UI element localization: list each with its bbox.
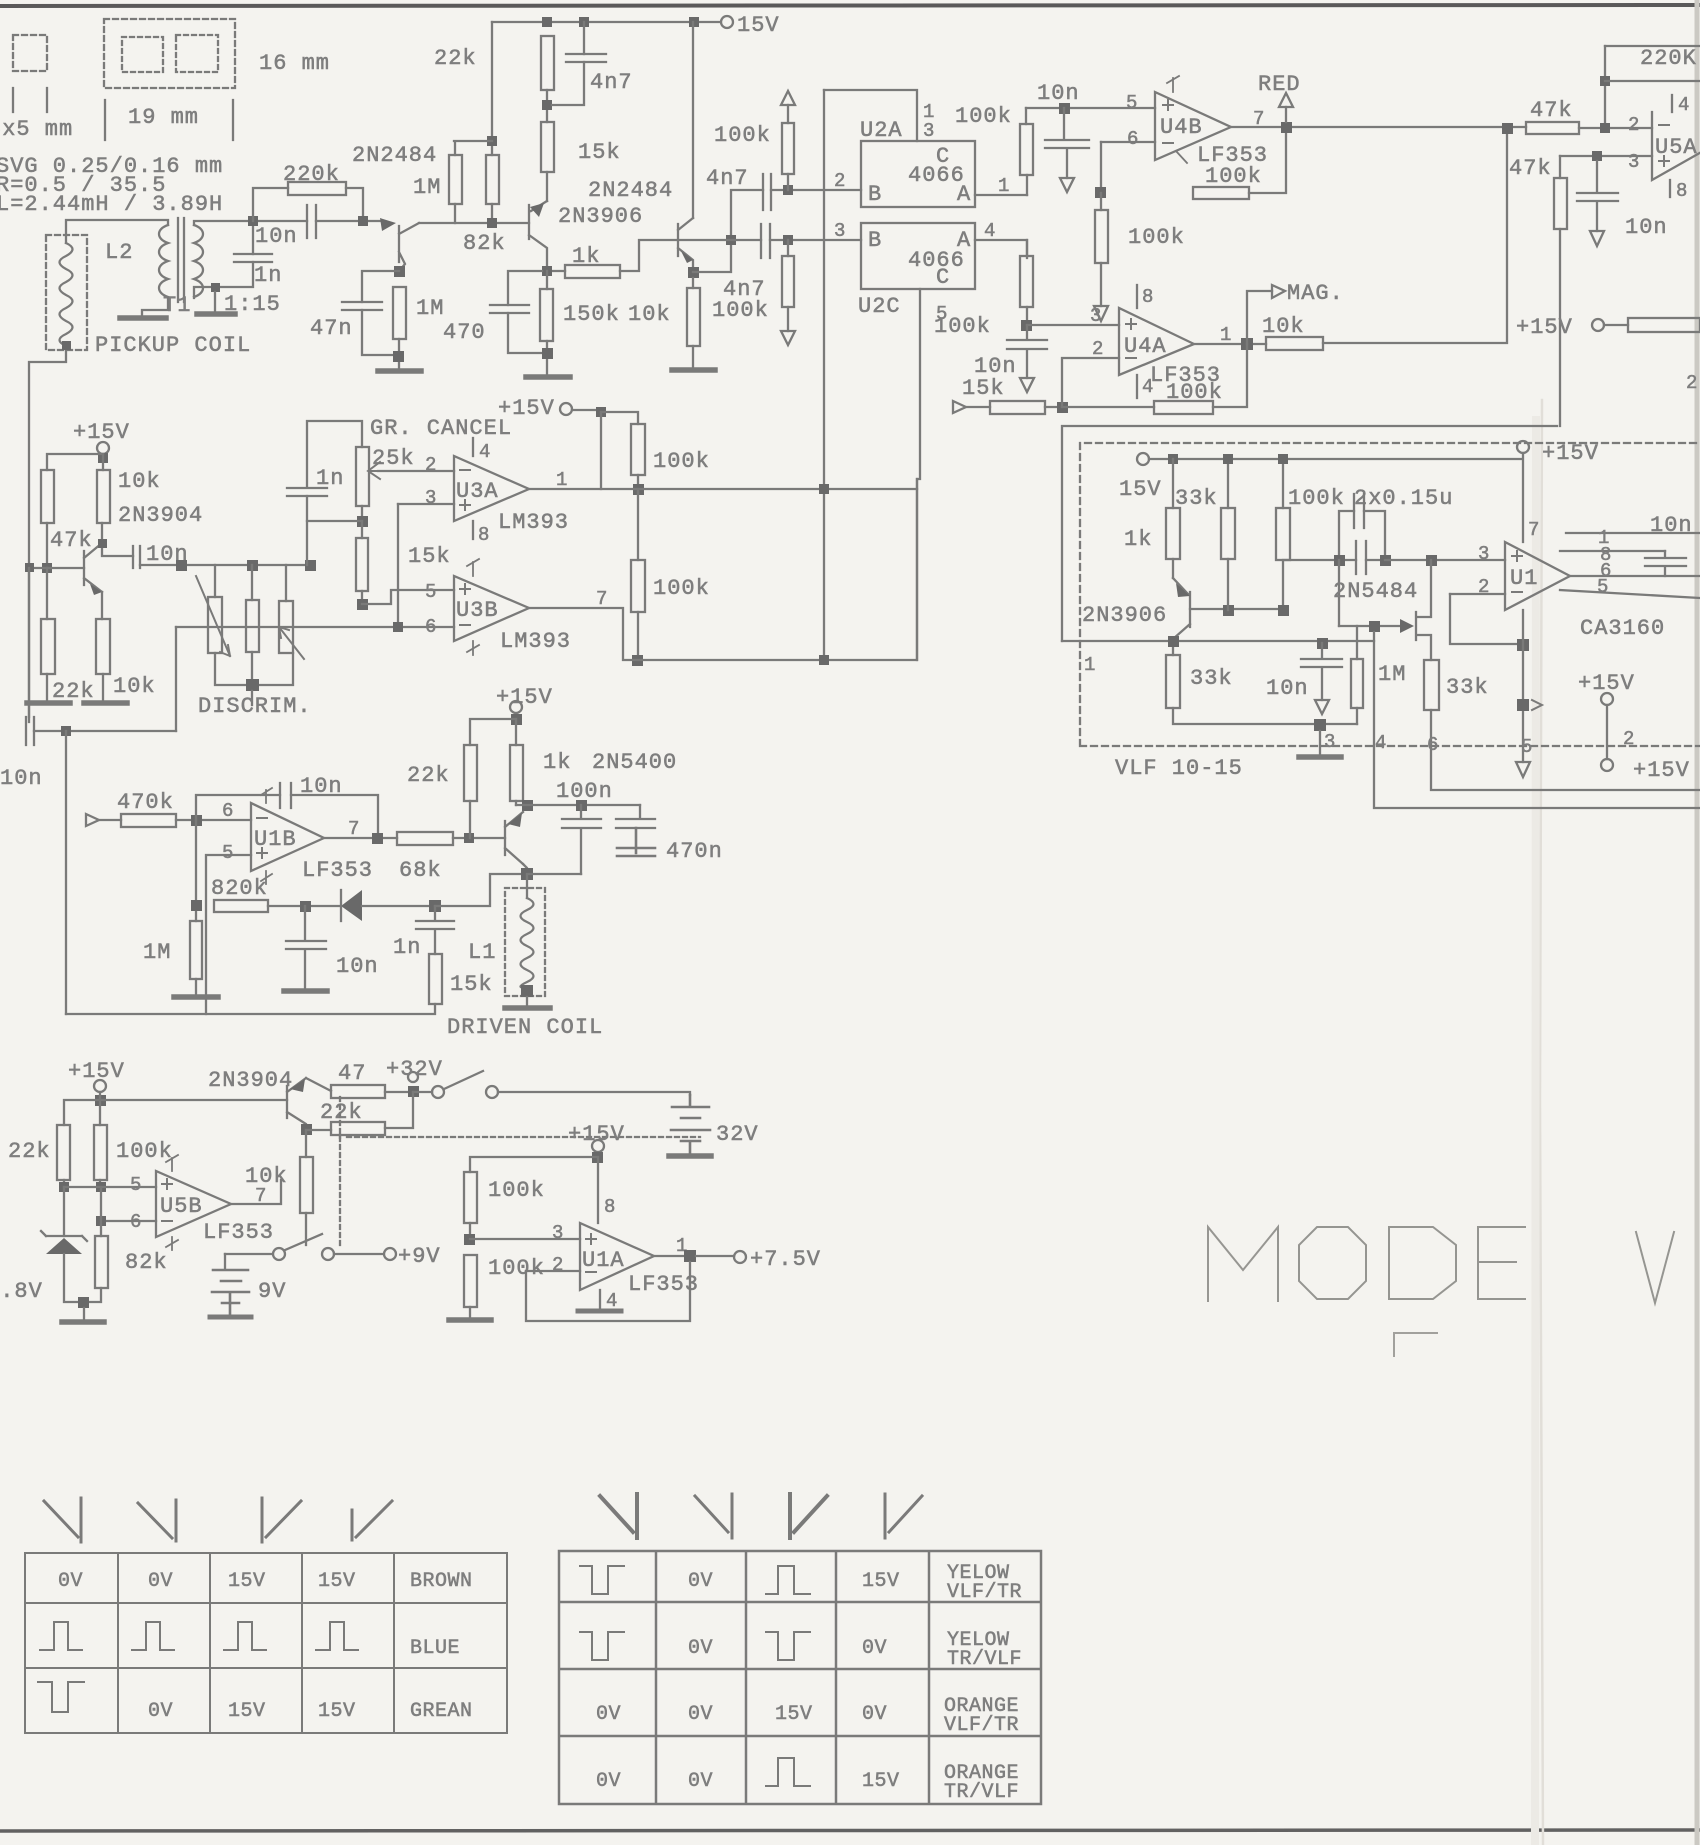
pulse up L r2c1 [40, 1622, 82, 1650]
wire T1 top to Q1 node row [194, 221, 307, 225]
wire Q7 collector down [1172, 639, 1174, 655]
junction +32V node [408, 1086, 419, 1097]
svg-text:10n: 10n [0, 766, 43, 791]
resistor 100k pullup vertical [782, 123, 794, 174]
wire +15V reg to Q6 [100, 1099, 287, 1101]
svg-text:7: 7 [1253, 108, 1264, 130]
wire gate pin4 drop [1374, 632, 1700, 808]
arrow input left [953, 401, 966, 413]
svg-text:3: 3 [834, 220, 845, 242]
U4B minus sign [1163, 142, 1173, 144]
svg-text:+15V: +15V [1516, 315, 1573, 340]
U1B plus sign [257, 848, 267, 858]
inductor L2 winding [60, 243, 73, 346]
junction upper 100k node [783, 185, 793, 195]
junction U3B out node [632, 655, 643, 666]
svg-text:U1B: U1B [254, 827, 297, 852]
junction U1A out [684, 1250, 696, 1262]
wire Q4 collector node to cap [102, 543, 133, 556]
svg-text:47k: 47k [1530, 98, 1573, 123]
junction feedback node U4B [1095, 187, 1106, 198]
svg-text:+32V: +32V [386, 1057, 443, 1082]
resistor 82k vertical [95, 1236, 108, 1288]
wire Q7 base row [1190, 608, 1283, 610]
junction discrim row a [176, 560, 187, 571]
svg-text:15V: 15V [318, 1700, 356, 1723]
circle +15V U1A [592, 1140, 604, 1152]
junction pin6 tie [393, 622, 403, 632]
svg-text:4n7: 4n7 [590, 70, 633, 95]
junction +15V U1A [592, 1152, 603, 1163]
svg-text:5: 5 [130, 1174, 141, 1196]
svg-text:U5A: U5A [1655, 135, 1698, 160]
arrow glyph L3 [262, 1498, 301, 1542]
svg-text:U1: U1 [1510, 566, 1538, 591]
svg-text:VLF/TR: VLF/TR [944, 1714, 1019, 1737]
wire 100k pullB bottom [637, 612, 639, 660]
svg-text:C: C [936, 265, 950, 290]
Q3 emitter arrow [681, 251, 693, 263]
junction U4A pin3 node [1021, 320, 1032, 331]
svg-text:+9V: +9V [398, 1244, 441, 1269]
pot right wiper arrow [279, 627, 304, 659]
pulse down R r1c1 dots [607, 1566, 609, 1592]
svg-text:2: 2 [834, 170, 845, 192]
junction Q3 emitter node [688, 267, 699, 278]
svg-text:2N2484: 2N2484 [588, 178, 673, 203]
wire +15V comp to 100k pullA [601, 412, 638, 424]
svg-text:1M: 1M [416, 296, 444, 321]
capacitor 1n drv plates [416, 906, 454, 954]
wire 22k collector feed vertical [491, 22, 493, 223]
resistor 10k vertical [687, 288, 700, 346]
wire Q5 collector to row [523, 864, 527, 875]
pot discrim left [208, 597, 222, 653]
wire 100k gnd top leg [1100, 193, 1102, 210]
wire 33k lower bottom to row3 [1173, 708, 1357, 724]
pulse up R r1c3 dots [793, 1568, 795, 1594]
junction zener gnd node [78, 1297, 89, 1308]
junction +15V reg [95, 1095, 106, 1106]
svg-text:15k: 15k [578, 140, 621, 165]
resistor 22k reg vertical [57, 1125, 70, 1180]
circle +32V terminal [408, 1072, 418, 1082]
resistor 100k divA vertical [464, 1172, 477, 1223]
wire mid row [307, 520, 362, 522]
wire 22k bias bottom [46, 674, 48, 700]
zener bar [41, 1231, 87, 1241]
pot 25k vertical [356, 447, 369, 506]
wire 4n7 top leg [583, 22, 585, 54]
junction 10n node pin5 [1059, 103, 1070, 114]
wire 9V switch to +9V [334, 1253, 383, 1255]
junction 1M/82k feed [487, 136, 497, 146]
wire U1 outputs right d [1560, 590, 1700, 598]
wire 0.15u bridge right [1364, 511, 1385, 560]
wire Q6 collector to 22k [306, 1092, 413, 1130]
svg-text:2N5400: 2N5400 [592, 750, 677, 775]
svg-text:0V: 0V [688, 1770, 713, 1793]
wire 15k to pin2 node [1045, 406, 1062, 408]
wire U1A pin4 stub [599, 1290, 601, 1310]
svg-text:0V: 0V [596, 1703, 621, 1726]
wire +15V U1A row to 100k [470, 1157, 598, 1172]
junction T1 bottom node [211, 283, 220, 292]
svg-text:150k: 150k [563, 302, 620, 327]
capacitor 470n lower plate [617, 828, 655, 856]
junction L2 column base [25, 563, 34, 572]
junction cap row left [1334, 555, 1345, 566]
wire 47 to +32V node [385, 1091, 413, 1093]
svg-text:DRIVEN COIL: DRIVEN COIL [447, 1015, 603, 1040]
wire 150k bottom to ground [546, 341, 548, 375]
junction 15V row c [1278, 454, 1288, 464]
svg-text:3: 3 [425, 487, 436, 509]
capacitor 10n VLF plates [1301, 643, 1342, 700]
Q5 emitter arrow [508, 813, 522, 827]
wire 100k-82k column [100, 1187, 102, 1236]
svg-text:5.8V: 5.8V [0, 1279, 43, 1304]
svg-text:L2: L2 [105, 240, 133, 265]
wire L2 bottom down-left [29, 346, 66, 717]
svg-text:VLF/TR: VLF/TR [947, 1581, 1022, 1604]
svg-text:7: 7 [596, 588, 607, 610]
ground arrow down pulldown [781, 331, 795, 345]
page edge shadow right [1695, 0, 1700, 1845]
right table grid [559, 1551, 1041, 1804]
svg-text:+15V: +15V [498, 396, 555, 421]
resistor 10k out horizontal [1266, 337, 1323, 350]
resistor discrim mid [246, 600, 259, 652]
U5A pin4 stub [1671, 95, 1673, 112]
Q2 emitter arrow [530, 203, 544, 217]
svg-text:2N3904: 2N3904 [208, 1068, 293, 1093]
wire 100k pullup bottom [787, 174, 789, 190]
junction top rail a [542, 17, 552, 27]
transformer T1 core lines [178, 218, 184, 302]
svg-text:10n: 10n [1266, 676, 1309, 701]
wire 100k VLF top [1282, 459, 1284, 508]
resistor 1M emitter vertical [393, 287, 406, 339]
legend inner dashed square A [122, 37, 163, 72]
svg-text:2: 2 [552, 1254, 563, 1276]
svg-text:1k: 1k [543, 750, 571, 775]
wire divider mid [469, 1223, 471, 1239]
resistor at right edge [1628, 318, 1700, 332]
wire discrim bottoms common [215, 652, 293, 685]
circle +15V pair bottom [1601, 759, 1613, 771]
pulse down R r2c3 [766, 1632, 810, 1660]
wire 1k to Q3 base [620, 240, 678, 271]
circle +7.5V [734, 1251, 746, 1263]
svg-text:100k: 100k [1205, 164, 1262, 189]
svg-text:4: 4 [1375, 732, 1386, 754]
wire fb cap loop [196, 795, 378, 832]
svg-text:8: 8 [1676, 180, 1687, 202]
wire +15V reg to 22k [64, 1092, 100, 1125]
svg-text:10n: 10n [300, 774, 343, 799]
svg-text:2N3906: 2N3906 [1082, 603, 1167, 628]
wire lower cap to U2C pin3 [770, 239, 861, 241]
junction U4B out [1281, 122, 1292, 133]
arrow glyph L1 [44, 1498, 81, 1542]
wire U4B output [1231, 126, 1526, 128]
resistor 68k horizontal [397, 832, 453, 845]
wire 10n row to pin6 riser [34, 730, 176, 732]
circle +15V bias [97, 442, 109, 454]
junction 2N5400 base node [464, 833, 474, 843]
svg-text:15V: 15V [862, 1770, 900, 1793]
capacitor 10n U5A plates [1577, 161, 1618, 231]
pulse down L r3c1 [38, 1682, 84, 1712]
U4B top stub [1167, 76, 1179, 92]
wire diode to L1 node [362, 905, 435, 907]
circle +15V pair top [1601, 693, 1613, 705]
wire 10k out to U5A riser [1323, 128, 1507, 343]
wire 33k source bottom pin6 [1431, 710, 1700, 790]
wire base row to L2 column [29, 567, 47, 569]
wire 1M drv top [195, 912, 197, 921]
svg-text:3: 3 [1324, 731, 1335, 753]
svg-text:100n: 100n [556, 779, 613, 804]
junction 10n row [61, 726, 71, 736]
svg-text:+15V: +15V [496, 685, 553, 710]
wire 220k left leg [253, 188, 288, 221]
zener diode 5.8V [46, 1238, 82, 1254]
wire upper cap to U2A pin2 [771, 189, 861, 191]
U3B bottom stub [467, 641, 479, 655]
svg-text:RED: RED [1258, 72, 1301, 97]
circle +15V comparators [560, 403, 572, 415]
junction Q7 base 33k [1223, 605, 1234, 616]
svg-text:+15V: +15V [1542, 441, 1599, 466]
svg-text:U3B: U3B [456, 598, 499, 623]
wire +15V reg to 100k [99, 1100, 101, 1125]
wire discrim bottom stub [251, 691, 253, 705]
junction zener node [59, 1182, 69, 1192]
junction Q7 collector node [1168, 636, 1179, 647]
wire 33k upper bottom [1227, 559, 1229, 610]
svg-text:U4B: U4B [1160, 115, 1203, 140]
svg-text:0V: 0V [596, 1770, 621, 1793]
arrow glyph R1 [600, 1494, 637, 1538]
wire 22k bias top [46, 568, 48, 619]
svg-text:8: 8 [1142, 286, 1153, 308]
resistor 10k emitter vertical [96, 619, 110, 674]
battery 32V cells [671, 1095, 710, 1154]
U3A minus sign [460, 469, 470, 471]
svg-text:4: 4 [984, 220, 995, 242]
wire U4A pin3 row [1027, 324, 1119, 326]
svg-text:33k: 33k [1190, 666, 1233, 691]
resistor 100k U4A feedback [1154, 401, 1213, 414]
junction discrim row b [247, 560, 258, 571]
wire base row to Q4 [47, 567, 84, 569]
svg-text:0V: 0V [688, 1703, 713, 1726]
junction +15V bias [98, 453, 108, 463]
wire 10k bottom to ground [692, 346, 694, 368]
resistor 82k vertical [486, 155, 499, 204]
svg-text:TR/VLF: TR/VLF [944, 1781, 1019, 1804]
wire 10n to Q1 base node [316, 220, 381, 222]
junction 47k-220K node [1600, 123, 1610, 133]
capacitor 1n gr plates [287, 488, 327, 496]
svg-text:BROWN: BROWN [410, 1570, 473, 1593]
transformer T1 right winding [194, 225, 203, 297]
svg-text:VLF 10-15: VLF 10-15 [1115, 756, 1243, 781]
wire 15k gr bottom to U3B pin5 [361, 591, 363, 604]
wire 150k top leg [546, 271, 548, 289]
U3B minus sign [460, 624, 470, 626]
MODE letter V [1636, 1232, 1674, 1303]
arrow RED up [1279, 93, 1293, 107]
svg-text:LF353: LF353 [628, 1272, 699, 1297]
junction pin3 10n node [1592, 151, 1602, 161]
op-amp U4B [1155, 92, 1231, 160]
svg-text:1M: 1M [413, 175, 441, 200]
wire 100k VLF bottom to base row [1283, 560, 1339, 610]
junction lower 100k node [783, 235, 793, 245]
svg-text:TR/VLF: TR/VLF [947, 1648, 1022, 1671]
wire +15V to 10k [102, 454, 104, 470]
pulse down R r1c1 [580, 1566, 624, 1594]
svg-text:MAG.: MAG. [1287, 281, 1344, 306]
wire pot right top [285, 565, 287, 601]
svg-text:2: 2 [1478, 576, 1489, 598]
dashed gang link horizontal [340, 1135, 700, 1138]
pulse up L r2c3 [224, 1622, 266, 1650]
U3A pin8 stub [472, 521, 474, 539]
svg-text:10n: 10n [336, 954, 379, 979]
svg-text:100k: 100k [116, 1139, 173, 1164]
svg-text:2x0.15u: 2x0.15u [1354, 486, 1453, 511]
svg-text:6: 6 [1427, 734, 1438, 756]
svg-text:470k: 470k [117, 790, 174, 815]
junction 25k bottom [357, 516, 368, 527]
ground under row3 [1299, 754, 1341, 760]
junction U4A pin2 node [1057, 402, 1068, 413]
circle +15V mid right [1592, 319, 1604, 331]
wire U2C pin4 out [975, 240, 1027, 258]
junction 150k ground node [542, 348, 553, 359]
wire pot left top [214, 565, 216, 597]
ground under 10n det [284, 988, 327, 994]
svg-text:0V: 0V [58, 1570, 83, 1593]
transistor Q1 2N2484 [399, 223, 419, 270]
resistor 1M drv vertical [190, 921, 202, 979]
junction U1B pin6 node [191, 815, 202, 826]
wire U4B pin5 row [1026, 107, 1155, 109]
ground arrow 10n VLF [1315, 700, 1329, 714]
ground under 9V [210, 1315, 251, 1320]
junction cap row right [1380, 555, 1391, 566]
wire res mid top [251, 565, 253, 600]
wire feedback right leg [1249, 127, 1286, 193]
ground arrow 10n U4A [1020, 378, 1034, 392]
ground under zener [62, 1319, 104, 1325]
wire U1A output [654, 1255, 690, 1257]
svg-text:7: 7 [1528, 519, 1539, 541]
junction emitter row a [522, 800, 533, 811]
junction base-100k [1278, 605, 1289, 616]
wire fb node down to 820k [195, 820, 197, 906]
wire 1k VLF top [1172, 459, 1174, 508]
junction discrim row c [305, 560, 316, 571]
svg-text:10k: 10k [118, 469, 161, 494]
wire cap to discrim row [140, 564, 310, 566]
ground under 1M [378, 368, 421, 374]
wire U1 outputs right b [1570, 575, 1700, 577]
wire pin3 to pin6 tie [397, 504, 399, 627]
wire U3B pin5 row [362, 590, 454, 604]
junction 15V row b [1223, 454, 1233, 464]
wire T1 bottom stub to ground [214, 292, 216, 312]
wire 1M bottom to ground [398, 339, 400, 368]
capacitor 0.15u A plates [1354, 494, 1364, 528]
circle +15V reg [94, 1080, 106, 1092]
svg-text:100k: 100k [714, 123, 771, 148]
U1A minus sign [586, 1271, 596, 1273]
svg-text:1k: 1k [1124, 527, 1152, 552]
wire 68k to 2N5400 base [453, 837, 505, 839]
wire gate row [1339, 625, 1400, 627]
svg-text:4: 4 [479, 441, 490, 463]
wire +15V drv to 22k [470, 719, 516, 745]
ground under T1 left [120, 315, 166, 321]
wire L2 column down to 10n [28, 568, 30, 722]
ground arrow strobe [1516, 762, 1530, 777]
pot left wiper arrow [196, 576, 230, 656]
capacitor 4n7 upper plates [763, 174, 771, 210]
pickup coil dashed box [46, 235, 87, 350]
pulse up R r4c3 [766, 1758, 810, 1786]
wire 10k2 bottom [102, 674, 104, 700]
junction divider mid [464, 1234, 475, 1245]
wire U1 pin2 row [1450, 593, 1505, 595]
wire out to +7.5V circle [696, 1255, 734, 1257]
wire zener gnd stub [83, 1308, 85, 1320]
svg-text:100k: 100k [934, 314, 991, 339]
resistor 100k feedback horizontal [1193, 187, 1249, 199]
circle +15V U1 [1517, 441, 1529, 453]
capacitor 10n U4A plates [1007, 325, 1047, 378]
U4B plus sign [1163, 100, 1173, 110]
svg-text:15V: 15V [228, 1700, 266, 1723]
ground under pin4 [578, 1309, 621, 1314]
resistor 1k VLF vertical [1166, 508, 1180, 559]
svg-text:GREAN: GREAN [410, 1700, 473, 1723]
resistor 220k [288, 182, 346, 195]
resistor 100k U2A-out vertical [1020, 124, 1033, 175]
wire 47k shunt bottom long [1559, 229, 1561, 426]
svg-text:LM393: LM393 [500, 629, 571, 654]
svg-text:0V: 0V [688, 1570, 713, 1593]
junction bus end U3B row [819, 655, 829, 665]
resistor 47k series horizontal [1526, 122, 1579, 134]
wire +15V drv to 1k [515, 719, 517, 745]
battery 9V bottom tick [222, 1303, 239, 1314]
junction Q4 collector [98, 539, 107, 548]
svg-text:LM393: LM393 [498, 510, 569, 535]
svg-text:22k: 22k [407, 763, 450, 788]
svg-text:8: 8 [478, 524, 489, 546]
wire U1B pin5 row and riser [206, 855, 251, 1014]
wire 100k reg bottom [99, 1180, 101, 1187]
junction L2 bottom [62, 341, 71, 350]
U5B top stub [166, 1155, 178, 1171]
diode D1 bar [340, 890, 342, 921]
U4A pin4 stub [1136, 375, 1138, 398]
